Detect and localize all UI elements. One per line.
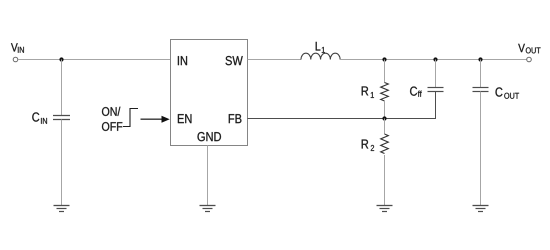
wire FB net (248, 92, 436, 119)
wire COUT bottom (480, 92, 482, 206)
wire L1 to VOUT (340, 59, 527, 61)
capacitor Cff (428, 88, 444, 92)
terminal VIN (13, 57, 18, 62)
node input junction (59, 57, 63, 61)
label VIN (11, 43, 24, 52)
arrowhead EN (162, 116, 170, 123)
wire R1 bottom (384, 101, 386, 119)
pin label FB (229, 114, 242, 123)
label ON/OFF (102, 107, 122, 131)
step symbol on/off edge (123, 109, 138, 127)
wire CIN top (61, 60, 63, 116)
pin label SW (226, 56, 243, 65)
label R1 (362, 86, 374, 97)
terminal VOUT (527, 57, 532, 62)
op-amp/regulator U1 box (171, 40, 248, 146)
label CIN (32, 112, 47, 123)
ground under R2 (377, 206, 393, 212)
wire GND pin down (207, 146, 209, 206)
label L1 (316, 42, 325, 53)
wire R1 top (384, 60, 386, 83)
pin label IN (178, 56, 187, 65)
label R2 (362, 140, 374, 151)
node FB junction (382, 116, 386, 120)
node R1 top (382, 57, 386, 61)
label COUT (496, 87, 520, 98)
wire R2 bottom (384, 155, 386, 206)
resistor R2 (381, 134, 389, 154)
wire arrow to EN (141, 118, 163, 120)
node Cff top (433, 57, 437, 61)
pin label GND (198, 132, 221, 141)
pin label EN (178, 114, 192, 123)
label VOUT (518, 44, 540, 54)
wire Cff top (435, 60, 437, 88)
capacitor CIN (53, 116, 70, 120)
wire input VIN to IN pin (18, 59, 171, 61)
ground under COUT (473, 206, 489, 212)
capacitor COUT (473, 88, 489, 92)
ground under GND pin (200, 206, 216, 212)
label Cff (410, 87, 422, 97)
ground under CIN (54, 206, 70, 212)
resistor R1 (381, 83, 389, 101)
wire COUT top (480, 60, 482, 88)
wire R2 top (384, 119, 386, 135)
wire SW to L1 (248, 59, 302, 61)
node COUT top (478, 57, 482, 61)
wire CIN bottom (61, 120, 63, 206)
inductor L1 (301, 53, 340, 59)
